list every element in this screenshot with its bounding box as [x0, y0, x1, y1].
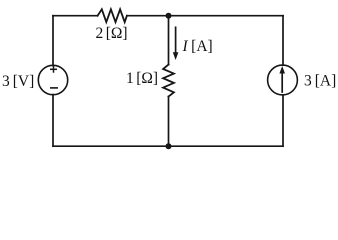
wire middle lower — [168, 97, 170, 147]
wire left side lower — [52, 95, 54, 147]
resistor R 2ohm zigzag — [98, 9, 127, 22]
current arrow I head — [173, 52, 179, 60]
resistor R 1ohm zigzag — [163, 65, 174, 97]
node dot top — [166, 13, 172, 19]
voltage source V1 circle — [38, 65, 67, 94]
wire right side lower — [282, 95, 284, 146]
node dot bottom — [166, 143, 172, 149]
svg-text:1[Ω]: 1[Ω] — [126, 70, 158, 87]
svg-text:I[A]: I[A] — [182, 38, 213, 55]
wire bottom — [53, 145, 283, 147]
current arrow I shaft — [175, 27, 177, 53]
wire top-left segment — [53, 15, 98, 17]
wire right side upper — [282, 16, 284, 65]
voltage source minus sign — [50, 87, 58, 89]
svg-text:3[V]: 3[V] — [2, 73, 34, 90]
current source I1 circle — [268, 65, 298, 95]
svg-text:3[A]: 3[A] — [304, 73, 336, 90]
wire middle upper — [168, 16, 170, 65]
voltage source plus sign — [50, 66, 57, 73]
current source I1 arrow head — [279, 66, 285, 74]
wire top-right segment — [127, 15, 283, 17]
wire left side upper — [52, 16, 54, 66]
current source I1 arrow shaft — [281, 72, 283, 92]
svg-text:2[Ω]: 2[Ω] — [96, 25, 128, 42]
